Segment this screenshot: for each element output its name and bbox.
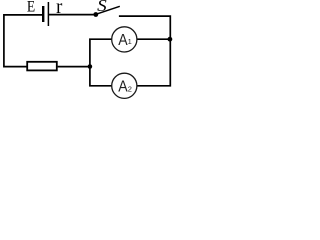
svg-text:1: 1 xyxy=(128,37,132,46)
svg-text:r: r xyxy=(56,0,63,18)
svg-text:S: S xyxy=(97,0,107,15)
svg-text:E: E xyxy=(27,0,35,16)
svg-text:A: A xyxy=(118,32,128,49)
svg-text:A: A xyxy=(118,79,128,96)
svg-text:2: 2 xyxy=(128,84,132,93)
